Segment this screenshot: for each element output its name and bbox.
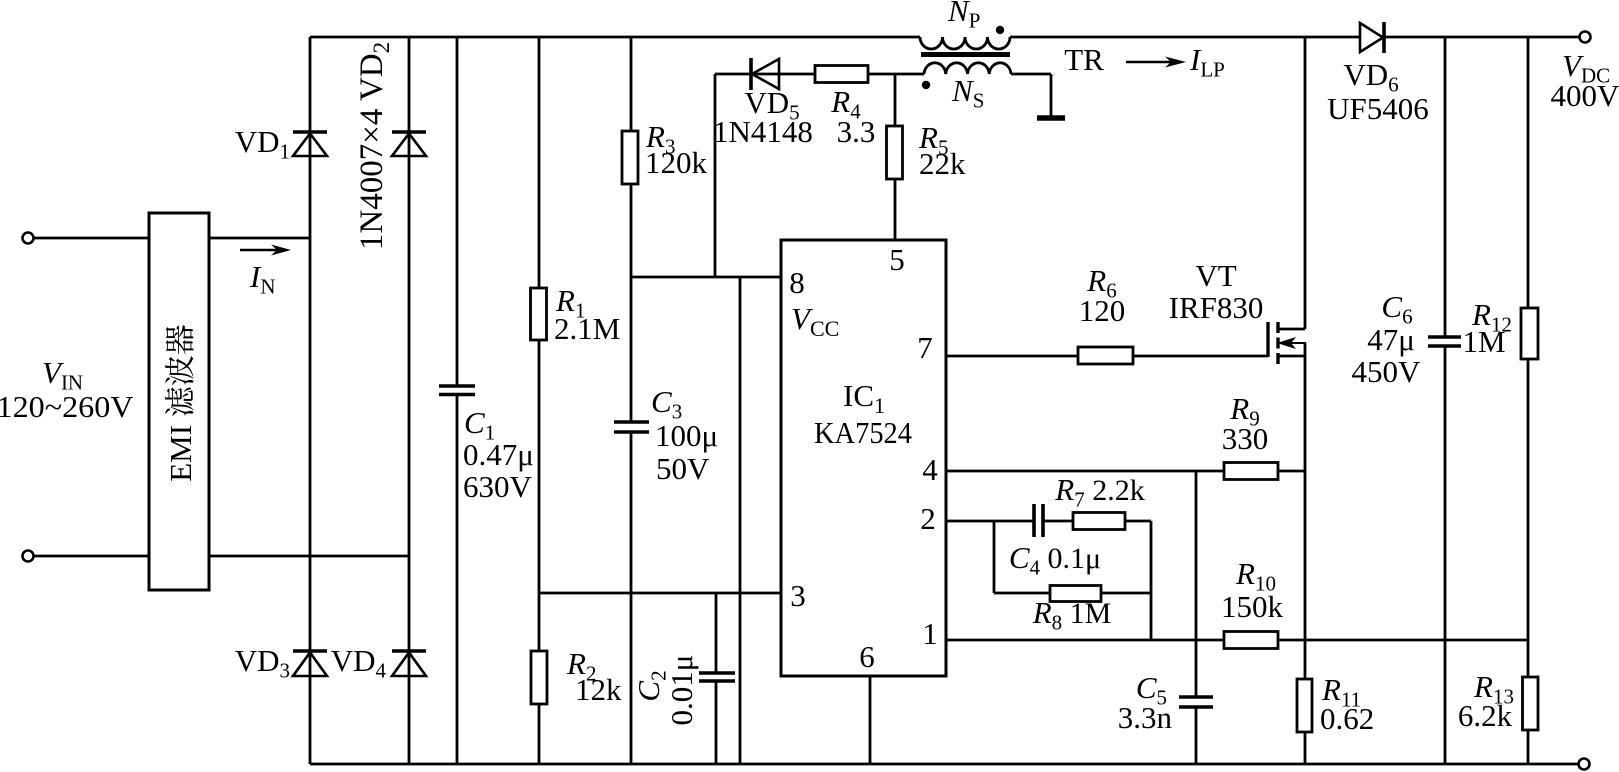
svg-text:8: 8 — [789, 265, 805, 300]
svg-text:NP: NP — [947, 0, 980, 33]
svg-text:150k: 150k — [1221, 589, 1284, 624]
svg-text:0.62: 0.62 — [1320, 701, 1374, 736]
svg-text:12k: 12k — [575, 672, 622, 707]
svg-text:6.2k: 6.2k — [1458, 698, 1513, 733]
svg-text:NS: NS — [951, 73, 984, 113]
svg-text:22k: 22k — [919, 146, 966, 181]
svg-text:50V: 50V — [656, 451, 710, 486]
svg-text:IN: IN — [249, 259, 276, 299]
svg-text:1M: 1M — [1462, 324, 1505, 359]
svg-text:2.1M: 2.1M — [554, 311, 620, 346]
svg-text:3.3n: 3.3n — [1118, 700, 1173, 735]
svg-text:VD1: VD1 — [235, 124, 290, 164]
svg-text:630V: 630V — [463, 469, 533, 504]
svg-text:R7 2.2k: R7 2.2k — [1054, 472, 1144, 512]
svg-text:100μ: 100μ — [655, 418, 718, 453]
svg-text:4: 4 — [922, 452, 938, 487]
svg-text:1N4007×4 VD2: 1N4007×4 VD2 — [354, 42, 394, 250]
svg-text:1: 1 — [922, 616, 938, 651]
svg-text:1N4148: 1N4148 — [713, 114, 813, 149]
svg-text:C4 0.1μ: C4 0.1μ — [1009, 540, 1101, 580]
svg-text:3.3: 3.3 — [837, 114, 876, 149]
svg-text:6: 6 — [859, 639, 875, 674]
svg-text:VT: VT — [1195, 258, 1236, 293]
svg-text:7: 7 — [917, 330, 933, 365]
svg-text:TR: TR — [1064, 42, 1104, 77]
svg-text:120~260V: 120~260V — [0, 389, 134, 424]
svg-text:450V: 450V — [1352, 354, 1422, 389]
svg-text:EMI: EMI — [163, 425, 198, 482]
svg-text:0.01μ: 0.01μ — [664, 655, 699, 726]
svg-text:R8 1M: R8 1M — [1032, 595, 1112, 635]
svg-text:VD3: VD3 — [235, 643, 290, 683]
svg-text:ILP: ILP — [1189, 42, 1225, 82]
svg-text:330: 330 — [1222, 421, 1269, 456]
svg-text:UF5406: UF5406 — [1327, 91, 1429, 126]
svg-text:120: 120 — [1079, 293, 1126, 328]
svg-text:47μ: 47μ — [1367, 322, 1415, 357]
svg-text:VD4: VD4 — [331, 643, 387, 683]
svg-text:2: 2 — [920, 501, 936, 536]
svg-text:KA7524: KA7524 — [814, 415, 912, 450]
svg-text:120k: 120k — [645, 145, 708, 180]
svg-text:IRF830: IRF830 — [1169, 290, 1264, 325]
svg-text:5: 5 — [889, 242, 905, 277]
svg-text:0.47μ: 0.47μ — [463, 437, 534, 472]
svg-text:400V: 400V — [1551, 78, 1619, 113]
svg-text:3: 3 — [790, 578, 806, 613]
